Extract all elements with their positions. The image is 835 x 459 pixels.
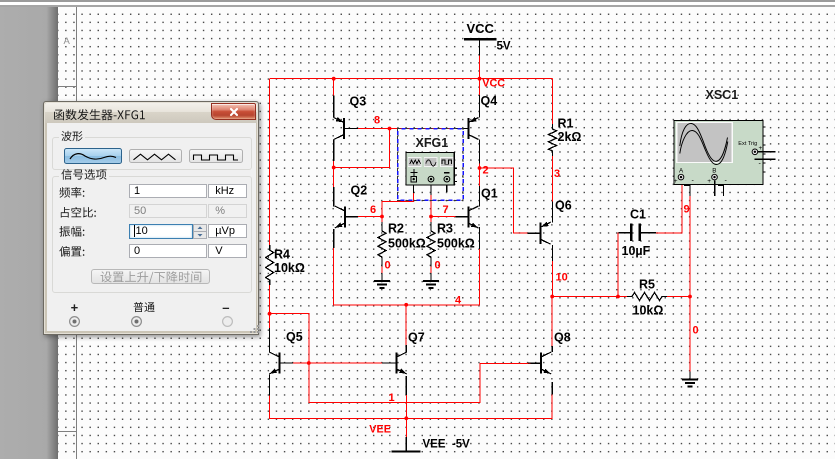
svg-text:10kΩ: 10kΩ	[274, 261, 305, 275]
wire R1 top to bus	[552, 79, 554, 129]
wire base rail Q5-Q7	[280, 362, 397, 364]
wire Q4 collector to Q1 collector (node 2)	[479, 140, 481, 207]
svg-text:10: 10	[556, 272, 568, 284]
transistor Q3	[334, 95, 366, 140]
svg-text:R4: R4	[274, 248, 290, 262]
svg-text:+: +	[759, 145, 763, 152]
wire bias jog to base rail and rail to Q8 base	[270, 314, 531, 403]
capacitor C1 10uF	[622, 208, 651, 259]
wire R1 bottom to Q6 emitter (node 3)	[552, 151, 554, 223]
junction node 8 at Q3 collector	[332, 166, 336, 170]
svg-text:0: 0	[693, 325, 699, 337]
svg-text:XSC1: XSC1	[706, 88, 739, 102]
resistor R1 2k	[549, 117, 582, 157]
junction VEE rail	[404, 416, 408, 420]
rise/fall time button	[91, 269, 210, 284]
svg-text:R1: R1	[558, 117, 574, 131]
svg-text:Ext Trig: Ext Trig	[738, 141, 757, 147]
ground (R2)	[374, 273, 390, 288]
wire node 2 loop to Q6 base	[480, 168, 541, 233]
wire Q6 collector to output rail (node 10)	[551, 245, 553, 297]
svg-text:Q3: Q3	[350, 95, 367, 109]
junction node 2	[478, 166, 482, 170]
junction node 6	[380, 215, 384, 219]
svg-text:Q6: Q6	[555, 199, 572, 213]
wire node 8 loop to Q3 collector	[334, 129, 390, 168]
svg-text:2kΩ: 2kΩ	[558, 130, 582, 144]
svg-text:VEE -5V: VEE -5V	[423, 439, 471, 451]
selection box around XFG1	[398, 129, 464, 201]
svg-text:Q8: Q8	[554, 331, 571, 345]
svg-text:Q1: Q1	[481, 187, 498, 201]
svg-text:VCC: VCC	[467, 21, 495, 36]
svg-text:VCC: VCC	[482, 77, 505, 89]
junction node 7	[429, 215, 433, 219]
ground node 0	[682, 372, 698, 387]
svg-text:10µF: 10µF	[622, 244, 651, 258]
wire component lead stubs (black)	[479, 40, 481, 55]
wire XFG common to node 7	[430, 194, 432, 217]
junction node 8	[388, 127, 392, 131]
wire output rail right of R5	[667, 296, 690, 298]
wire node 6 to XFG plus	[382, 192, 414, 217]
svg-text:1: 1	[389, 392, 395, 404]
junction mirror base rail	[307, 361, 311, 365]
XFG1 properties dialog	[43, 101, 259, 335]
svg-text:A: A	[64, 36, 71, 47]
wire emitter rail (VEE net)	[270, 375, 553, 419]
wire node 8 Q3-Q4 bases	[344, 128, 468, 130]
svg-text:XFG1: XFG1	[416, 136, 449, 150]
wire Q3 emitter to bus	[333, 79, 335, 118]
wire R3 bottom to ground	[430, 266, 432, 273]
svg-text:10kΩ: 10kΩ	[633, 304, 664, 318]
wire Q8 collector to rail	[551, 297, 553, 353]
junction C1 branch	[616, 295, 620, 299]
wire R2 bottom to ground	[381, 266, 383, 273]
svg-text:9: 9	[684, 204, 690, 216]
svg-text:C1: C1	[630, 208, 646, 222]
wire VCC bus	[270, 78, 553, 80]
svg-text:Q5: Q5	[286, 330, 303, 344]
wire VCC bus to R4	[269, 79, 271, 246]
svg-text:R3: R3	[437, 222, 453, 236]
transistor Q8	[528, 331, 571, 375]
wire node 6	[345, 216, 382, 218]
svg-text:+: +	[707, 178, 711, 185]
svg-text:Q2: Q2	[351, 184, 368, 198]
wire C1 to scope A	[640, 180, 682, 233]
svg-text:B: B	[712, 167, 716, 174]
wire output rail left of R5	[552, 296, 627, 298]
ground (R3)	[423, 273, 439, 288]
wire scope A- to ground (node 0)	[689, 196, 691, 372]
junction node 10 rail	[550, 295, 554, 299]
svg-text:Q4: Q4	[481, 94, 498, 108]
wire node 4 tail loop	[334, 227, 480, 305]
transistor Q4	[455, 94, 497, 140]
wire node 4 to Q7 collector	[405, 305, 407, 352]
svg-text:VEE: VEE	[369, 423, 391, 435]
transistor Q5	[269, 330, 303, 374]
wire node 7	[431, 216, 468, 218]
power VEE symbol	[392, 439, 471, 452]
junction R4 to Q5 collector	[268, 312, 272, 316]
svg-text:3: 3	[554, 168, 560, 180]
svg-text:0: 0	[435, 260, 441, 272]
junction node 4	[404, 303, 408, 307]
svg-text:0: 0	[385, 260, 391, 272]
svg-text:R2: R2	[388, 222, 404, 236]
wire Q7 emitter to VEE symbol	[405, 376, 407, 437]
wire C1 branch	[618, 233, 631, 297]
svg-text:7: 7	[443, 204, 449, 216]
transistor Q6	[527, 199, 571, 245]
wire Q3 collector to Q2 collector	[333, 140, 335, 207]
junction node 0 rail end	[688, 295, 692, 299]
svg-text:2: 2	[483, 165, 489, 177]
svg-text:6: 6	[370, 204, 376, 216]
wire R3 top	[430, 217, 432, 223]
wire R4 to mirror node	[269, 284, 271, 330]
junction VCC supply	[478, 77, 482, 81]
oscilloscope XSC1	[674, 88, 776, 196]
resistor R2 500k	[378, 222, 426, 263]
svg-text:R5: R5	[639, 278, 655, 292]
svg-text:4: 4	[455, 295, 462, 307]
transistor Q7	[384, 331, 425, 375]
svg-text:Q7: Q7	[408, 331, 425, 345]
transistor Q2	[335, 184, 368, 229]
junction Q3 emitter at bus	[332, 77, 336, 81]
wire Q4 emitter to bus	[479, 55, 481, 117]
function generator XFG1 symbol	[406, 136, 457, 185]
wire R2 top	[381, 217, 383, 223]
transistor Q1	[455, 187, 497, 229]
wire VCC stem	[479, 40, 481, 79]
svg-text:500kΩ: 500kΩ	[437, 237, 475, 251]
resistor R4 10k	[266, 245, 305, 285]
svg-text:500kΩ: 500kΩ	[388, 237, 426, 251]
power VCC symbol	[464, 21, 511, 53]
svg-text:5V: 5V	[497, 41, 511, 53]
resistor R5 10k	[627, 278, 667, 318]
close button	[211, 103, 256, 120]
svg-text:8: 8	[374, 115, 380, 127]
svg-text:+: +	[674, 178, 678, 185]
resistor R3 500k	[427, 222, 475, 263]
